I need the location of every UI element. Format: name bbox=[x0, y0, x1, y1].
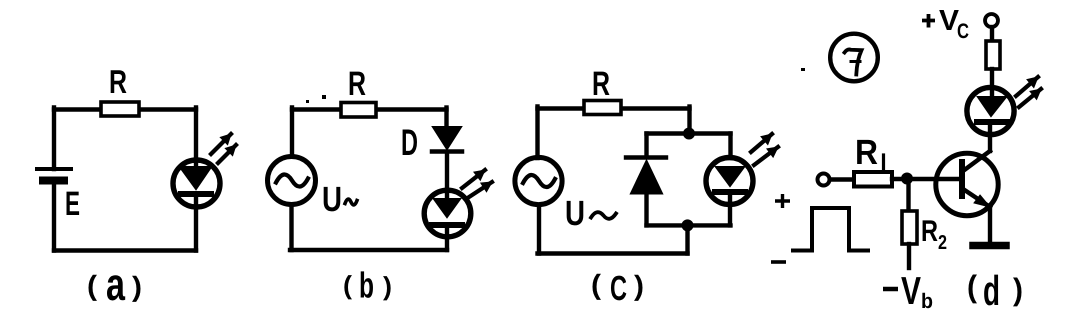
svg-text:(: ( bbox=[591, 269, 602, 300]
svg-text:): ) bbox=[132, 271, 142, 302]
svg-text:): ) bbox=[383, 271, 392, 301]
svg-text:b: b bbox=[359, 265, 374, 306]
svg-text:b: b bbox=[921, 290, 933, 313]
svg-text:(: ( bbox=[967, 269, 978, 304]
svg-text:U: U bbox=[322, 180, 342, 219]
svg-text:C: C bbox=[957, 20, 969, 43]
svg-text:a: a bbox=[106, 258, 125, 310]
svg-text:E: E bbox=[65, 185, 80, 223]
svg-text:R: R bbox=[109, 63, 127, 100]
svg-text:D: D bbox=[401, 122, 418, 163]
svg-text:): ) bbox=[1013, 272, 1023, 307]
svg-text:V: V bbox=[901, 270, 921, 313]
svg-text:R: R bbox=[855, 133, 878, 172]
svg-text:): ) bbox=[634, 270, 644, 301]
svg-text:R: R bbox=[348, 65, 366, 103]
svg-text:R: R bbox=[592, 65, 610, 103]
svg-text:d: d bbox=[983, 267, 1000, 314]
svg-text:U: U bbox=[565, 194, 585, 233]
svg-text:R: R bbox=[921, 215, 938, 248]
svg-text:(: ( bbox=[343, 270, 352, 300]
svg-text:2: 2 bbox=[938, 232, 947, 254]
svg-text:(: ( bbox=[87, 270, 98, 301]
svg-text:C: C bbox=[610, 269, 627, 308]
